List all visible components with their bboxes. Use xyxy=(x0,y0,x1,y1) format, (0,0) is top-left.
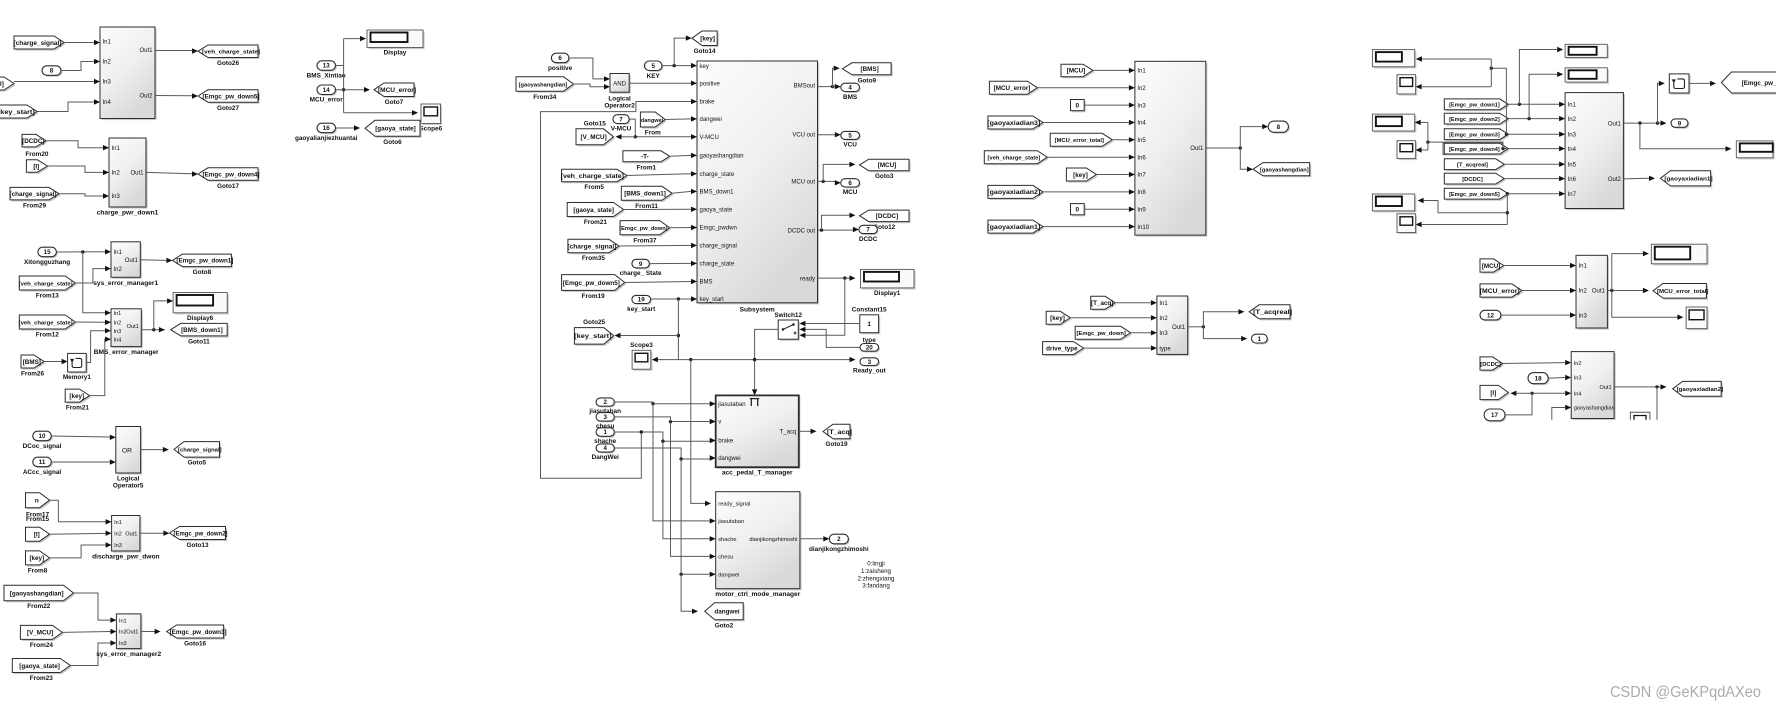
svg-text:From5: From5 xyxy=(584,184,604,191)
svg-text:In3: In3 xyxy=(1159,331,1168,337)
wire to display A xyxy=(1416,56,1491,61)
svg-text:[gaoya_state]: [gaoya_state] xyxy=(375,126,416,133)
wire Constant15 to switch xyxy=(799,321,859,326)
svg-text:From21: From21 xyxy=(66,405,90,412)
wire 6 to AND In1 xyxy=(569,58,610,82)
wire gaoya_state to In3 xyxy=(70,640,116,665)
svg-text:Display6: Display6 xyxy=(187,315,214,322)
svg-text:In3: In3 xyxy=(112,194,121,200)
svg-text:Goto15: Goto15 xyxy=(584,120,606,127)
svg-text:In1: In1 xyxy=(1137,69,1146,75)
svg-text:v: v xyxy=(718,420,721,426)
svg-text:In3: In3 xyxy=(114,329,122,335)
constant Constant15 xyxy=(852,306,887,334)
wire 8 to In2 xyxy=(61,59,100,71)
svg-text:positive: positive xyxy=(548,65,573,72)
svg-text:[veh_charge_state]: [veh_charge_state] xyxy=(561,173,624,180)
svg-text:18: 18 xyxy=(1535,375,1542,382)
svg-text:[key]: [key] xyxy=(69,393,84,400)
wire BMSout net xyxy=(818,85,836,88)
svg-text:[gaoyashangdian]: [gaoyashangdian] xyxy=(1260,168,1309,174)
wire to goto I xyxy=(1510,391,1532,396)
svg-text:[Emgc_pw_down1]: [Emgc_pw_down1] xyxy=(1449,103,1500,109)
from tag MCU_error xyxy=(989,81,1039,96)
wire VCU out xyxy=(818,132,841,137)
wire down5 to In7 xyxy=(1506,191,1565,196)
outport 4 BMS xyxy=(841,83,861,101)
wire dangwei to port xyxy=(665,116,697,121)
svg-text:2: 2 xyxy=(603,399,607,406)
label 20 Ready between xyxy=(0,0,1,1)
svg-text:Goto25: Goto25 xyxy=(583,319,605,326)
wire key to In2 xyxy=(1070,315,1157,320)
scope pair B xyxy=(1397,141,1417,160)
svg-text:In2: In2 xyxy=(112,171,121,177)
svg-text:In7: In7 xyxy=(1568,192,1577,198)
from tag I xyxy=(26,527,52,543)
svg-text:In1: In1 xyxy=(119,618,127,624)
wire MCU_error to In2 G xyxy=(1522,288,1576,293)
svg-text:Out2: Out2 xyxy=(1608,177,1622,183)
svg-text:gaoyalianjiezhuantai: gaoyalianjiezhuantai xyxy=(295,135,358,142)
svg-text:jiasutaban: jiasutaban xyxy=(717,402,745,408)
goto tag Goto27 Emgc_pw_down5 xyxy=(198,90,260,112)
wire to Display xyxy=(344,36,366,41)
from tag veh_charge_state From12 xyxy=(19,315,77,339)
svg-text:BMS: BMS xyxy=(700,280,713,286)
wire down to Goto25 and ready line xyxy=(677,299,680,360)
subsystem MCU error counter xyxy=(1576,255,1609,329)
wire ready_out horizontal xyxy=(653,357,856,362)
wire up to Goto14 xyxy=(674,35,692,65)
svg-text:acc_pedal_T_manager: acc_pedal_T_manager xyxy=(722,470,793,477)
svg-text:From23: From23 xyxy=(30,675,54,682)
svg-text:19: 19 xyxy=(638,297,645,304)
svg-text:Out1: Out1 xyxy=(126,630,138,636)
from tag T_acqreal r xyxy=(1444,159,1506,171)
svg-text:Goto13: Goto13 xyxy=(186,542,208,549)
goto tag Goto7 MCU_error xyxy=(374,83,416,106)
from tag MCU_error_total xyxy=(1050,133,1114,148)
from tag Emgc_pw_down2 r xyxy=(1444,113,1510,125)
svg-text:[gaoyashangdian]: [gaoyashangdian] xyxy=(519,82,568,88)
wire 1 branch down to shache xyxy=(663,441,716,541)
display pair B xyxy=(1372,114,1416,132)
wire DCDC to In1 xyxy=(46,141,109,151)
wire From5 to charge_state xyxy=(627,171,697,176)
wire to oval4 BMS xyxy=(833,84,841,89)
wire up to display H xyxy=(1612,251,1649,291)
wire Out1 main xyxy=(1623,120,1666,125)
svg-text:In4: In4 xyxy=(1568,147,1577,153)
label Logical Operator5 xyxy=(113,475,144,489)
outport 7 DCDC xyxy=(859,225,879,243)
svg-text:[BMS]: [BMS] xyxy=(861,66,879,73)
svg-text:In4: In4 xyxy=(1574,392,1582,398)
svg-text:From12: From12 xyxy=(36,332,60,339)
svg-text:[MCU_error]: [MCU_error] xyxy=(378,87,416,94)
goto tag Goto13 Emgc_pw_down2 xyxy=(170,527,228,550)
from tag DCDC rr xyxy=(1480,357,1504,372)
svg-text:[I]: [I] xyxy=(1490,390,1496,397)
svg-text:[gaoyaxiadian3]: [gaoyaxiadian3] xyxy=(987,120,1040,127)
from tag key From21 xyxy=(65,389,91,412)
subsystem motor_ctrl_mode_manager xyxy=(715,492,801,599)
svg-text:brake: brake xyxy=(718,439,734,445)
goto tag Goto2 dangwei xyxy=(705,603,745,630)
from tag drive_type xyxy=(1043,342,1086,357)
svg-text:AND: AND xyxy=(613,81,626,87)
constant 0 (a) xyxy=(1071,100,1086,113)
svg-text:MCU: MCU xyxy=(843,189,858,196)
wire MCU_error to In2 xyxy=(1037,85,1135,91)
subsystem discharge_pwr_dwon xyxy=(92,516,159,561)
svg-text:[Emgc_pw_down4]: [Emgc_pw_down4] xyxy=(202,171,259,178)
svg-text:VCU out: VCU out xyxy=(792,133,815,139)
svg-text:Goto8: Goto8 xyxy=(193,269,212,276)
svg-text:Goto27: Goto27 xyxy=(217,105,239,112)
svg-text:In10: In10 xyxy=(1137,225,1149,231)
wire From13 to In2 xyxy=(75,266,111,283)
from tag MCU_error rr xyxy=(1480,284,1524,299)
wire gaoyaxiadian1 to In10 xyxy=(1043,224,1135,229)
outport 5 VCU xyxy=(841,131,861,148)
svg-text:[key]: [key] xyxy=(1050,315,1065,322)
wire ready down to switch xyxy=(799,278,844,338)
svg-text:[Emgc_pw_down3]: [Emgc_pw_down3] xyxy=(170,629,227,636)
svg-text:From: From xyxy=(645,130,661,137)
svg-text:6: 6 xyxy=(558,55,562,62)
svg-text:In2: In2 xyxy=(103,60,112,66)
wire to display B xyxy=(1415,120,1428,125)
svg-text:key_start: key_start xyxy=(627,306,656,313)
svg-text:[Emgc_pw_down5]: [Emgc_pw_down5] xyxy=(1449,192,1500,198)
outport 3 Ready_out xyxy=(853,358,887,375)
memory Memory1 xyxy=(63,353,92,381)
subsystem gaoyaxiadian2 maker xyxy=(1571,352,1616,421)
wire From12 to In2 xyxy=(75,320,111,325)
svg-text:Goto7: Goto7 xyxy=(385,99,404,106)
wire In7 branch to pair C xyxy=(1506,194,1509,225)
subsystem error collector (10 in) xyxy=(1135,61,1208,236)
svg-text:BMS: BMS xyxy=(843,94,858,101)
svg-text:dangwei: dangwei xyxy=(641,118,664,124)
wire In1 branch to display D xyxy=(1519,47,1563,105)
svg-text:Out1: Out1 xyxy=(130,171,144,177)
from tag charge_signal From29 xyxy=(10,187,61,209)
svg-text:Goto11: Goto11 xyxy=(188,338,210,345)
svg-text:In1: In1 xyxy=(1159,301,1168,307)
svg-text:Goto9: Goto9 xyxy=(858,77,877,84)
wire BMS to Memory1 xyxy=(44,359,68,364)
goto tag Goto12 DCDC xyxy=(860,210,911,231)
wire key to In7 xyxy=(1096,172,1135,177)
from tag charge_signal From35 xyxy=(567,239,620,262)
wire KEY to key port xyxy=(662,63,697,68)
svg-text:motor_ctrl_mode_manager: motor_ctrl_mode_manager xyxy=(715,591,800,598)
svg-text:Goto5: Goto5 xyxy=(188,460,207,467)
label OR xyxy=(122,447,132,454)
from tag gaoyaxiadian2 xyxy=(987,185,1044,200)
goto tag I (flipped) xyxy=(1480,385,1510,401)
svg-text:Goto14: Goto14 xyxy=(694,48,716,55)
svg-text:[gaoyaxiadian2]: [gaoyaxiadian2] xyxy=(987,189,1040,196)
inport 7 V-MCU xyxy=(611,115,632,133)
svg-text:1: 1 xyxy=(603,429,607,436)
svg-text:[gaoyashangdian]: [gaoyashangdian] xyxy=(10,590,64,597)
wire drive_type to type xyxy=(1084,345,1157,350)
svg-text:[MCU_error_total]: [MCU_error_total] xyxy=(1657,289,1709,295)
svg-text:In2: In2 xyxy=(114,321,122,327)
svg-text:[key_start]: [key_start] xyxy=(0,109,35,116)
from tag veh_charge_state From13 xyxy=(19,276,77,300)
svg-text:KEY: KEY xyxy=(647,73,661,80)
wire to display C xyxy=(1418,198,1508,213)
label AND xyxy=(613,81,626,87)
svg-text:From1: From1 xyxy=(637,164,657,171)
goto tag Goto25 key_start (flipped) xyxy=(574,319,615,346)
svg-text:4: 4 xyxy=(848,85,852,92)
scope Scope3 xyxy=(630,342,653,371)
wire 10 to OR xyxy=(51,435,116,440)
svg-text:charge_ State: charge_ State xyxy=(620,270,662,277)
svg-text:2:zhengxiang: 2:zhengxiang xyxy=(858,575,895,582)
svg-text:Out1: Out1 xyxy=(125,258,139,264)
wire OR to Goto5 xyxy=(141,447,169,452)
wire From37 to port xyxy=(670,225,697,230)
svg-text:dangwei: dangwei xyxy=(714,609,739,616)
svg-text:BMS_Xintiao: BMS_Xintiao xyxy=(307,73,346,80)
svg-text:3: 3 xyxy=(868,359,872,366)
from tag gaoyashangdian From22 xyxy=(4,585,75,610)
wire MCU to In1 G xyxy=(1504,263,1576,268)
goto tag Goto3 MCU xyxy=(860,159,911,180)
goto tag Goto19 T_acq xyxy=(823,424,852,448)
outport 6 MCU xyxy=(841,179,861,197)
wire Out1 to Goto17 xyxy=(146,171,198,176)
svg-text:Out1: Out1 xyxy=(127,324,139,330)
from tag DCDC r xyxy=(1444,173,1506,185)
wire gaoyaxiadian3 to In4 xyxy=(1043,120,1135,125)
svg-text:Scope3: Scope3 xyxy=(630,342,653,349)
wire up to Goto3 xyxy=(823,162,855,182)
svg-text:In2: In2 xyxy=(1574,361,1582,367)
svg-text:[T_acqreal]: [T_acqreal] xyxy=(1253,309,1292,316)
wire 4 to dangwei ports xyxy=(614,448,715,461)
svg-text:key_start: key_start xyxy=(700,297,725,303)
wire brake loop xyxy=(541,99,698,478)
from tag Emgc_pw_down t xyxy=(1075,326,1132,341)
svg-text:BMS_down1: BMS_down1 xyxy=(700,190,735,196)
wire memory to Goto xyxy=(1689,81,1716,86)
svg-text:[Emgc_pw_down]: [Emgc_pw_down] xyxy=(1077,331,1126,337)
inport 12 xyxy=(1480,310,1502,321)
svg-text:In2: In2 xyxy=(114,531,122,537)
svg-text:type: type xyxy=(1159,346,1171,352)
svg-text:[Emgc_pw_down]: [Emgc_pw_down] xyxy=(619,226,667,232)
svg-text:[BMS]: [BMS] xyxy=(23,359,41,366)
wire From19 to BMS port xyxy=(625,279,697,284)
display H xyxy=(1651,244,1708,265)
wire to Scope6 xyxy=(344,110,418,115)
svg-text:[V_MCU]: [V_MCU] xyxy=(0,81,4,88)
svg-text:[MCU_error_total]: [MCU_error_total] xyxy=(1055,138,1104,144)
wire From11 to port xyxy=(672,189,697,194)
goto tag Goto5 charge_signal xyxy=(174,442,222,467)
svg-text:Emgc_pwdwn: Emgc_pwdwn xyxy=(700,226,737,232)
wire 12 to In3 G xyxy=(1501,312,1576,317)
svg-text:In2: In2 xyxy=(1579,289,1588,295)
svg-text:Display1: Display1 xyxy=(874,290,901,297)
from tag Emgc_pw_down3 r xyxy=(1444,129,1510,141)
wire 15 to In1 and down xyxy=(56,249,111,254)
goto tag Goto17 Emgc_pw_down4 xyxy=(198,168,260,190)
wire 15 branch down to BMS In1 xyxy=(83,252,111,316)
wire branch to Goto15 xyxy=(616,134,636,139)
svg-text:[T_acqreal]: [T_acqreal] xyxy=(1457,163,1488,169)
svg-text:DCDC: DCDC xyxy=(859,236,878,243)
svg-text:-T-: -T- xyxy=(641,154,649,161)
svg-text:In8: In8 xyxy=(1137,190,1146,196)
svg-text:From8: From8 xyxy=(28,567,48,574)
svg-text:key: key xyxy=(700,64,709,70)
svg-text:1: 1 xyxy=(867,321,871,328)
svg-text:MCU out: MCU out xyxy=(791,180,815,186)
svg-text:ACcc_signal: ACcc_signal xyxy=(23,469,62,476)
svg-text:From21: From21 xyxy=(584,219,608,226)
annotation mode list xyxy=(858,561,895,590)
svg-text:From20: From20 xyxy=(25,151,49,158)
label From17 xyxy=(26,512,50,524)
svg-text:[key]: [key] xyxy=(1073,172,1088,179)
svg-text:Scope6: Scope6 xyxy=(419,126,442,133)
wire 4 branch down to motor dangwei xyxy=(679,459,715,577)
from tag MCU xyxy=(1061,64,1095,78)
from tag key_start xyxy=(0,105,39,120)
wire charge_signal to In1 xyxy=(64,40,100,45)
svg-text:Out1: Out1 xyxy=(1190,146,1204,152)
svg-text:In1: In1 xyxy=(1579,264,1588,270)
svg-text:[charge_signal]: [charge_signal] xyxy=(567,243,616,250)
subsystem T_acq arbiter xyxy=(1157,296,1189,356)
wire MCU_error_total to In5 xyxy=(1112,137,1135,142)
svg-text:gaoyashangdian: gaoyashangdian xyxy=(700,154,744,160)
svg-text:From19: From19 xyxy=(582,293,606,300)
wire down to Goto gaoyashangdian xyxy=(1240,148,1253,172)
svg-text:Memory1: Memory1 xyxy=(63,374,92,381)
svg-text:dangwei: dangwei xyxy=(718,573,739,579)
svg-text:1: 1 xyxy=(1258,336,1262,343)
wire 18 to In3 J xyxy=(1548,375,1571,380)
svg-text:[veh_charge_state]: [veh_charge_state] xyxy=(19,320,73,326)
svg-text:12: 12 xyxy=(1487,312,1494,319)
inport 14 MCU_error xyxy=(310,85,344,104)
partial block top (cut) xyxy=(1630,412,1650,419)
svg-text:[Emgc_pw_down2]: [Emgc_pw_down2] xyxy=(1449,117,1500,123)
subsystem BMS_error_manager xyxy=(94,309,159,356)
svg-text:dianjikongzhimoshi: dianjikongzhimoshi xyxy=(809,546,869,553)
wire 17 net to In4 J xyxy=(1530,391,1571,396)
wire From35 to port xyxy=(619,243,697,248)
svg-text:[MCU]: [MCU] xyxy=(878,162,897,169)
svg-text:type: type xyxy=(863,337,877,344)
svg-text:From29: From29 xyxy=(23,202,47,209)
svg-text:[charge_signal]: [charge_signal] xyxy=(178,448,222,454)
scope pair C xyxy=(1397,214,1417,234)
inport 13 BMS_Xintiao xyxy=(307,61,346,80)
svg-text:dangwei: dangwei xyxy=(718,456,740,462)
svg-text:Xitongguzhang: Xitongguzhang xyxy=(24,259,70,266)
from tag BMS_down1 From11 xyxy=(621,186,673,210)
arrowhead into acc block top xyxy=(752,389,757,395)
svg-text:In4: In4 xyxy=(1137,121,1146,127)
from tag T_acq xyxy=(1091,296,1117,311)
wire From21 to port xyxy=(624,207,698,212)
svg-text:9: 9 xyxy=(1678,120,1682,127)
svg-text:In4: In4 xyxy=(114,337,122,343)
svg-text:8: 8 xyxy=(1277,124,1281,131)
from tag gaoyashangdian From34 xyxy=(516,77,575,101)
inport 4 DangWei xyxy=(592,444,619,461)
svg-text:charge_signal: charge_signal xyxy=(700,244,737,250)
svg-text:Display: Display xyxy=(384,50,407,57)
wire 3 branch down to chesu xyxy=(671,422,716,559)
wire 0 to In3 xyxy=(1084,102,1135,107)
svg-text:8: 8 xyxy=(50,68,54,75)
svg-text:[DCDC]: [DCDC] xyxy=(1462,177,1483,183)
logical operator OR Logical Operator5 xyxy=(116,427,142,475)
svg-text:From35: From35 xyxy=(582,255,606,262)
wire Emgc_pw_down to In3 xyxy=(1131,330,1157,335)
svg-text:[gaoya_state]: [gaoya_state] xyxy=(573,207,614,214)
svg-text:Goto16: Goto16 xyxy=(184,641,206,648)
svg-text:gaoyashangdian: gaoyashangdian xyxy=(1574,406,1615,412)
inport 9 charge_State xyxy=(620,259,662,277)
wire Out2 to Goto27 xyxy=(155,93,198,98)
goto tag Goto11 BMS_down1 xyxy=(171,323,229,345)
wire MCU to In1 xyxy=(1093,68,1135,73)
svg-text:1:zaisheng: 1:zaisheng xyxy=(861,568,891,575)
goto tag T_acqreal xyxy=(1249,305,1292,321)
wire to Goto25 xyxy=(615,333,679,338)
svg-text:Out1: Out1 xyxy=(1608,121,1622,127)
svg-text:CSDN @GeKPqdAXeo: CSDN @GeKPqdAXeo xyxy=(1610,684,1761,701)
svg-text:dianjikongzhimoshi: dianjikongzhimoshi xyxy=(749,537,797,543)
display Display xyxy=(367,30,425,57)
wire Memory1 to In3 xyxy=(86,328,111,363)
svg-text:In5: In5 xyxy=(1137,138,1146,144)
svg-text:OR: OR xyxy=(122,447,132,454)
wire to In3 xyxy=(14,79,100,84)
svg-text:[T_acq]: [T_acq] xyxy=(827,429,852,436)
subsystem sys_error_manager2 xyxy=(96,614,161,658)
svg-text:In9: In9 xyxy=(1137,207,1146,213)
svg-text:Logical: Logical xyxy=(117,475,140,482)
wire T_acq to Goto19 xyxy=(799,429,817,434)
from tag dangwei xyxy=(640,112,666,137)
svg-text:discharge_pwr_dwon: discharge_pwr_dwon xyxy=(92,554,159,561)
svg-text:BMSout: BMSout xyxy=(794,84,816,90)
wire down2 to In2 xyxy=(1508,116,1565,121)
wire vertical 13 net xyxy=(342,39,345,113)
svg-text:16: 16 xyxy=(323,125,330,132)
wire I to In2 xyxy=(50,531,112,536)
svg-text:[Emgc_pw_down5]: [Emgc_pw_down5] xyxy=(202,93,259,100)
svg-text:positive: positive xyxy=(700,81,721,87)
from tag gaoyaxiadian3 xyxy=(987,116,1044,131)
from tag n From17 From15 xyxy=(26,493,52,510)
svg-text:[Emgc_pw_down1]: [Emgc_pw_down1] xyxy=(176,258,233,265)
